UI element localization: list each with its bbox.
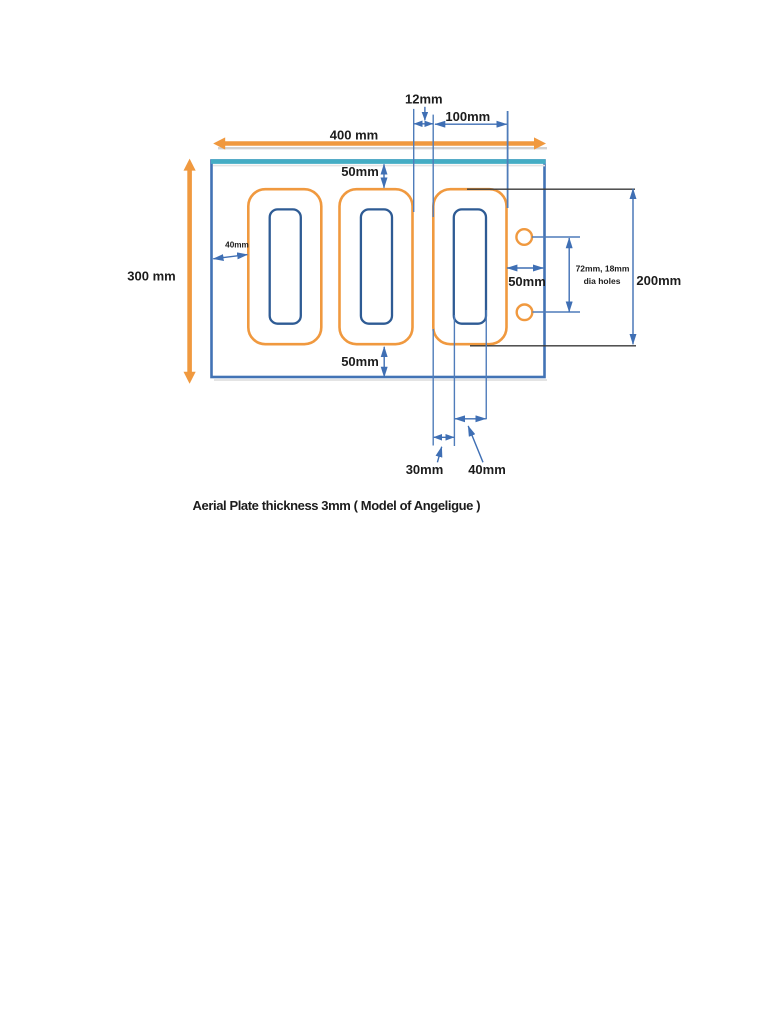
svg-text:40mm: 40mm bbox=[468, 462, 506, 477]
extension line x=507.6 (top) bbox=[507, 111, 509, 208]
svg-text:72mm, 18mm: 72mm, 18mm bbox=[576, 264, 630, 274]
dimension arrow 50mm right bbox=[507, 268, 546, 289]
black reference line bottom bbox=[470, 345, 636, 347]
svg-text:400 mm: 400 mm bbox=[330, 128, 378, 143]
svg-text:30mm: 30mm bbox=[406, 462, 444, 477]
dimension arrow 30mm bottom bbox=[406, 437, 454, 477]
teal top edge line bbox=[211, 162, 546, 166]
svg-text:100mm: 100mm bbox=[445, 109, 490, 124]
extension line x=433.2 (top) bbox=[432, 115, 434, 217]
dimension arrow 40mm bottom bbox=[455, 419, 506, 477]
dimension arrow 400mm (orange horizontal) bbox=[213, 128, 546, 150]
dimension arrow 50mm top bbox=[341, 164, 384, 188]
dimension arrow 12mm bbox=[405, 92, 443, 124]
extension line x=454.4 (bottom) bbox=[453, 315, 455, 446]
svg-text:50mm: 50mm bbox=[508, 274, 546, 289]
extension line x=413.7 (top) bbox=[413, 109, 415, 212]
slot inner rounded rect 2 (blue) bbox=[361, 209, 392, 323]
svg-text:50mm: 50mm bbox=[341, 354, 379, 369]
slot inner rounded rect 1 (blue) bbox=[270, 209, 301, 323]
tick line from bottom hole bbox=[533, 311, 581, 313]
slot outer rounded rect 1 (orange) bbox=[248, 189, 321, 344]
svg-text:Aerial Plate thickness 3mm (: Aerial Plate thickness 3mm ( Model of An… bbox=[193, 498, 481, 513]
plate outline bbox=[212, 161, 545, 378]
slot outer rounded rect 2 (orange) bbox=[340, 189, 413, 344]
svg-text:40mm: 40mm bbox=[225, 241, 249, 250]
dimension arrow 72mm between holes bbox=[569, 238, 630, 312]
dimension arrow 50mm bottom bbox=[341, 347, 384, 377]
slot inner rounded rect 3 (blue) bbox=[454, 209, 486, 323]
hole circle bottom (orange) bbox=[517, 305, 533, 321]
tick line from top hole bbox=[532, 236, 580, 238]
dimension arrow 40mm (diagonal, plate edge to slot 1) bbox=[213, 241, 249, 259]
caption text bbox=[193, 498, 481, 513]
shadow under 400mm arrow bbox=[218, 147, 547, 149]
dimension arrow 200mm bbox=[633, 189, 681, 344]
svg-text:50mm: 50mm bbox=[341, 164, 379, 179]
slot outer rounded rect 3 (orange) bbox=[433, 189, 506, 344]
extension line x=433.2 (bottom) bbox=[432, 329, 434, 446]
svg-text:dia holes: dia holes bbox=[584, 276, 621, 286]
leader arrow for 40mm bottom bbox=[468, 426, 483, 462]
hole circle top (orange) bbox=[516, 229, 532, 245]
black reference line top bbox=[467, 188, 635, 190]
svg-text:300 mm: 300 mm bbox=[127, 269, 175, 284]
leader arrow under 12mm text bbox=[424, 107, 426, 120]
leader arrow for 30mm bottom bbox=[437, 447, 441, 463]
svg-text:200mm: 200mm bbox=[636, 273, 681, 288]
svg-text:12mm: 12mm bbox=[405, 92, 443, 107]
extension line x=486.25 (bottom) bbox=[485, 310, 487, 419]
dimension arrow 100mm bbox=[435, 109, 507, 124]
shadow under plate bottom edge bbox=[214, 379, 547, 381]
dimension arrow 300mm (orange vertical) bbox=[127, 159, 195, 384]
